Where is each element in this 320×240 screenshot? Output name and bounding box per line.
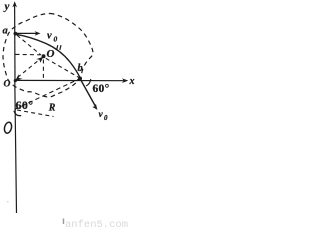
node a dot xyxy=(14,32,18,36)
svg-text:O: O xyxy=(4,79,11,89)
svg-text:R: R xyxy=(48,103,56,114)
faint speck xyxy=(7,201,9,203)
node b dot xyxy=(78,77,82,81)
watermark tick xyxy=(63,219,64,225)
dashed horizontal from y-axis to O'' xyxy=(16,53,41,55)
node O'' dot xyxy=(42,54,46,58)
projectile trajectory a to b xyxy=(16,34,80,77)
svg-text:0: 0 xyxy=(104,114,108,122)
dashed circle (trajectory circle, center O'') xyxy=(3,13,93,97)
v0 arrow at b (tangent velocity) xyxy=(80,79,95,106)
svg-text:a: a xyxy=(3,26,8,37)
node O2 label xyxy=(3,121,12,134)
svg-text:60°: 60° xyxy=(93,83,110,95)
svg-text:0: 0 xyxy=(54,35,58,44)
v0 arrow at a xyxy=(16,32,38,34)
angle arc marker lower-left xyxy=(14,111,21,116)
svg-text:x: x xyxy=(129,76,135,87)
dashed radius arrow O to O'' xyxy=(18,59,40,77)
x-axis xyxy=(15,79,126,81)
60 degree angle arc at b xyxy=(86,79,91,86)
dashed ray from vertex O2 xyxy=(17,110,54,117)
svg-text:y: y xyxy=(3,1,10,13)
dashed radius O'' to b xyxy=(46,58,79,77)
svg-text:O: O xyxy=(47,48,55,60)
dashed vertical O'' to x-axis xyxy=(42,60,44,80)
svg-text:v: v xyxy=(47,31,52,42)
svg-text:v: v xyxy=(99,110,104,120)
dashed line from 60-degree vertex to b xyxy=(15,79,79,109)
y-axis arrowhead xyxy=(12,1,17,7)
negative y-axis wall line xyxy=(15,81,17,213)
svg-text:anfen5.com: anfen5.com xyxy=(65,219,128,231)
origin dot xyxy=(14,79,17,82)
svg-text:b: b xyxy=(78,63,83,74)
y-axis xyxy=(14,4,16,82)
dashed radius a to O'' xyxy=(17,35,41,55)
x-axis arrowhead xyxy=(122,78,128,83)
